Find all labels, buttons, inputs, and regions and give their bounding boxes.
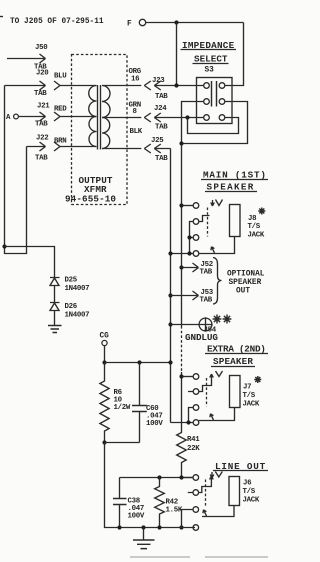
main speaker title: [201, 170, 268, 193]
jack J7 switch contact: [189, 405, 199, 423]
extra speaker title: [205, 344, 268, 368]
wire S3 row1 right to top: [225, 23, 244, 86]
connector J22 tab pair: [27, 135, 97, 163]
jack J8 ring contact: [190, 216, 210, 238]
svg-text:JACK: JACK: [243, 401, 260, 409]
wire S3 row2 right loop: [182, 102, 248, 144]
jack J8 switch contact: [187, 235, 198, 254]
node dot R6 bottom: [102, 440, 106, 444]
jack J7 spring contact arrow: [216, 371, 223, 377]
connector J50: [7, 44, 48, 72]
svg-text:1/2W: 1/2W: [114, 404, 131, 412]
jack J6 body: [229, 477, 240, 506]
svg-text:TAB: TAB: [155, 155, 168, 163]
svg-text:R41: R41: [187, 436, 200, 444]
star symbols J54: [213, 315, 232, 324]
connector J24 tab pair (GRN): [102, 102, 204, 132]
svg-text:J50: J50: [35, 44, 48, 52]
node dot R42 bottom: [157, 525, 161, 529]
svg-text:J25: J25: [151, 137, 164, 145]
svg-text:SPEAKER: SPEAKER: [229, 279, 262, 287]
svg-text:TAB: TAB: [200, 269, 213, 277]
wire hot dashed section: [181, 326, 183, 372]
svg-text:S3: S3: [205, 67, 215, 75]
jack J8 spring contact arrow: [211, 200, 223, 207]
star symbol J8: [258, 208, 265, 215]
svg-text:1N4007: 1N4007: [65, 285, 90, 293]
switch S3 contact bars: [212, 81, 217, 107]
jack J8 switch dashed link: [207, 208, 209, 237]
wire to diodes: [5, 247, 55, 278]
svg-text:F: F: [127, 21, 132, 29]
svg-text:94-655-10: 94-655-10: [65, 194, 116, 205]
svg-text:100V: 100V: [128, 513, 145, 521]
jack J7 ring contact: [188, 374, 213, 394]
connector J21 tab pair: [18, 103, 96, 129]
jack J6 switch contact: [182, 507, 199, 528]
node dot at top tee: [174, 20, 178, 24]
switch S3 pole circle row3 right: [219, 115, 225, 121]
bottom scan artifacts: [130, 556, 268, 558]
diode D25: [50, 277, 89, 303]
gnd lug J54: [168, 317, 218, 343]
wire F to top right: [146, 22, 244, 24]
jack J6 sleeve contact: [179, 525, 198, 531]
node dot sleeve join: [168, 360, 172, 364]
svg-text:J21: J21: [37, 103, 50, 111]
connector J52: [179, 261, 213, 277]
svg-text:D25: D25: [65, 277, 78, 285]
svg-text:J20: J20: [36, 70, 49, 78]
dashed box output transformer: [72, 55, 128, 205]
svg-text:TO J205 OF 07-295-11: TO J205 OF 07-295-11: [10, 18, 104, 26]
jack J8 body ground wire: [199, 237, 235, 254]
svg-text:TAB: TAB: [155, 124, 168, 132]
jack J6 switch dashed link: [205, 480, 207, 507]
svg-text:OUT: OUT: [236, 288, 250, 296]
node dot on left bus: [2, 244, 6, 248]
star symbol J7: [254, 376, 261, 383]
svg-text:JACK: JACK: [243, 497, 260, 505]
diode D26: [50, 303, 89, 326]
svg-text:T/S: T/S: [243, 392, 256, 400]
ground under diodes: [48, 326, 62, 333]
jack J7 body ground wire: [199, 408, 235, 421]
terminal CG: [100, 333, 110, 346]
svg-text:BRN: BRN: [54, 138, 66, 146]
node dot C60 top: [137, 360, 141, 364]
connector J25 tab pair (BLK): [102, 128, 171, 163]
connector J20 tab pair: [5, 70, 97, 99]
svg-text:1N4007: 1N4007: [65, 312, 90, 320]
jack J6 tip contact: [182, 475, 199, 481]
transformer labels: [65, 175, 116, 205]
svg-text:CG: CG: [100, 333, 110, 341]
node dot R41 bottom tee: [179, 475, 183, 479]
svg-text:JACK: JACK: [248, 232, 265, 240]
wire line out rail: [120, 477, 194, 479]
wire left bus: [5, 86, 27, 254]
wire S3 row3 under loop: [188, 118, 239, 134]
resistor R6: [100, 363, 131, 443]
jack J8 body: [230, 205, 241, 237]
svg-text:J8: J8: [248, 215, 257, 223]
svg-text:T/S: T/S: [243, 488, 256, 496]
svg-text:TAB: TAB: [35, 121, 48, 129]
svg-text:TAB: TAB: [200, 297, 213, 305]
wire S3 row2 left leg: [182, 102, 204, 144]
wire CG down: [104, 346, 106, 363]
svg-text:J7: J7: [243, 384, 251, 392]
resistor R41: [177, 431, 201, 478]
svg-text:1.5K: 1.5K: [166, 507, 183, 515]
wire R6/C60 bottom: [105, 442, 140, 444]
transformer primary winding: [89, 86, 97, 147]
wire hot vertical lower: [181, 372, 183, 431]
svg-text:D26: D26: [65, 303, 78, 311]
jack J6 body ground wire: [202, 506, 234, 517]
svg-text:J6: J6: [243, 480, 252, 488]
switch S3 pole circle row2 left: [204, 99, 210, 105]
svg-text:TAB: TAB: [155, 93, 168, 101]
switch S3 pole circle row3 left: [204, 115, 210, 121]
wire hot vertical upper: [181, 144, 183, 327]
transformer core: [98, 85, 101, 150]
note optional speaker out: [227, 271, 265, 296]
switch S3 pole circle row2 right: [219, 99, 225, 105]
svg-text:22K: 22K: [187, 445, 200, 453]
jack J7 label: [243, 384, 260, 409]
switch S3 pole circle row1 left: [204, 83, 210, 89]
jack J6 spring contact arrow: [210, 472, 222, 479]
terminal F: [127, 19, 146, 28]
wire sleeve vertical: [170, 149, 172, 423]
jack J8 tip contact: [179, 203, 198, 209]
jack J7 tip contact: [179, 374, 198, 380]
brace optional speaker out: [213, 258, 222, 305]
node dot GRN tee: [185, 115, 189, 119]
capacitor C60: [132, 363, 163, 443]
svg-text:R42: R42: [166, 499, 178, 507]
svg-text:BLK: BLK: [130, 128, 143, 136]
node dot CG tee: [102, 360, 106, 364]
switch S3 pole circle row1 right: [219, 83, 225, 89]
svg-text:100V: 100V: [146, 420, 163, 428]
svg-text:TAB: TAB: [34, 90, 47, 98]
capacitor C38: [113, 478, 145, 528]
resistor R42: [155, 475, 183, 527]
svg-text:SPEAKER: SPEAKER: [213, 356, 253, 367]
svg-text:TAB: TAB: [35, 155, 48, 163]
transformer secondary winding: [102, 86, 110, 149]
wire left bus to bottom rail: [105, 443, 196, 528]
svg-text:OPTIONAL: OPTIONAL: [227, 271, 265, 279]
jack J8 label: [248, 215, 265, 240]
left edge tick: [0, 16, 3, 18]
wire vertical down to S3 row1: [176, 23, 178, 86]
switch S3 body: [197, 78, 233, 124]
node dot S3 row1: [174, 83, 178, 87]
svg-text:BLU: BLU: [54, 73, 66, 81]
svg-text:GNDLUG: GNDLUG: [185, 332, 218, 343]
svg-text:J23: J23: [152, 77, 165, 85]
connector J23 tab pair (ORG): [102, 68, 204, 101]
ground bottom: [133, 525, 155, 548]
node dot hot tee: [179, 141, 183, 145]
terminal A: [6, 114, 18, 122]
jack J7 sleeve contact: [171, 420, 199, 426]
svg-text:J24: J24: [154, 105, 167, 113]
jack J8 sleeve contact: [168, 251, 198, 257]
line out title: [213, 461, 268, 472]
impedance select title: [181, 40, 237, 75]
jack J7 body: [230, 376, 241, 408]
node dot C38 bottom: [117, 525, 121, 529]
svg-text:T/S: T/S: [248, 223, 261, 231]
jack J6 ring contact: [188, 476, 213, 495]
jack J6 label: [243, 480, 260, 505]
connector J53: [168, 289, 213, 305]
svg-text:J22: J22: [36, 135, 48, 143]
svg-text:RED: RED: [54, 106, 67, 114]
jack J7 switch dashed link: [206, 378, 208, 407]
wire CG row to sleeve: [105, 362, 171, 364]
svg-text:16: 16: [131, 76, 140, 84]
